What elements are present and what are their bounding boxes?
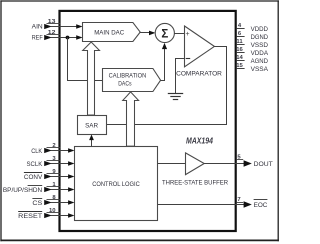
svg-text:VSSD: VSSD xyxy=(251,42,269,49)
figure frame left xyxy=(0,0,2,241)
wire CLK to control logic xyxy=(51,150,73,152)
wire RESET to control logic xyxy=(51,215,73,217)
arrowhead into SAR bottom xyxy=(89,135,94,141)
wire control logic to EOC pin xyxy=(158,204,245,206)
wire control logic to buffer xyxy=(158,163,186,165)
comparator - input mark xyxy=(186,58,191,60)
pin 4 lead stub xyxy=(236,28,244,30)
svg-text:REF: REF xyxy=(32,35,43,42)
main DAC block xyxy=(83,23,141,42)
arrowhead into MAIN DAC (AIN) xyxy=(76,24,82,29)
svg-text:BP/UP/SHDN: BP/UP/SHDN xyxy=(3,187,43,194)
svg-text:CLK: CLK xyxy=(31,148,43,155)
svg-text:DGND: DGND xyxy=(251,34,269,41)
pin 15 lead stub xyxy=(236,68,244,70)
arrowhead into control logic (CLK) xyxy=(68,148,74,153)
wire summer to comparator + xyxy=(174,33,184,35)
svg-text:12: 12 xyxy=(48,30,56,36)
junction dot on REF line xyxy=(66,36,70,40)
three-state buffer triangle xyxy=(186,153,205,175)
wire control logic to SAR xyxy=(91,140,93,147)
wire CS to control logic xyxy=(51,202,73,204)
figure frame top xyxy=(0,0,279,2)
svg-text:MAIN DAC: MAIN DAC xyxy=(94,29,124,36)
pin 11 lead stub xyxy=(236,44,244,46)
svg-text:AGND: AGND xyxy=(251,58,269,65)
pin 6 lead stub xyxy=(236,36,244,38)
svg-text:DACs: DACs xyxy=(118,80,131,87)
summing node circle xyxy=(155,23,174,42)
svg-text:SAR: SAR xyxy=(85,123,98,130)
wire SCLK to control logic xyxy=(51,163,73,165)
arrowhead into control logic (CS) xyxy=(68,200,74,205)
arrowhead into control logic (SCLK) xyxy=(68,161,74,166)
ground symbol bar2 xyxy=(170,96,180,98)
svg-text:SCLK: SCLK xyxy=(27,161,43,168)
svg-text:DOUT: DOUT xyxy=(254,161,273,168)
wire REF into CALIBRATION DACs xyxy=(67,80,103,82)
overline for CONV xyxy=(24,172,42,174)
ground symbol bar3 xyxy=(173,99,178,101)
wire buffer to DOUT pin xyxy=(204,163,244,165)
overline for RESET xyxy=(18,211,42,213)
svg-text:VSSA: VSSA xyxy=(251,66,269,73)
arrowhead into control logic (CONV) xyxy=(68,174,74,179)
calibration DACs block xyxy=(103,69,161,92)
wire MAIN DAC to summer xyxy=(140,32,154,34)
arrowhead into control logic (RESET) xyxy=(68,213,74,218)
wire comparator output to SAR xyxy=(107,47,227,125)
arrowhead into summer bottom xyxy=(162,43,167,49)
pin 5 lead underline xyxy=(236,159,243,161)
pin 16 lead stub xyxy=(236,52,244,54)
figure frame right xyxy=(277,0,279,241)
ground symbol bar1 xyxy=(168,93,183,95)
control logic block xyxy=(75,147,158,221)
svg-text:15: 15 xyxy=(236,63,243,69)
wire CONV to control logic xyxy=(51,176,73,178)
wire AIN to MAIN DAC xyxy=(51,26,81,28)
pin 2 lead underline xyxy=(47,147,61,149)
overline for CS xyxy=(32,198,42,200)
wire REF to MAIN DAC xyxy=(51,37,81,39)
pin 3 lead underline xyxy=(47,160,61,162)
svg-text:MAX194: MAX194 xyxy=(186,136,214,145)
input arrow BP/UP/SHDN xyxy=(44,187,52,192)
output arrow DOUT xyxy=(244,160,252,166)
wire down to ground xyxy=(175,59,177,94)
input arrow RESET xyxy=(44,213,52,218)
pin 9 lead underline xyxy=(47,173,61,175)
input arrow REF xyxy=(44,35,52,40)
input arrow CLK xyxy=(44,148,52,153)
wire REF down to CALIBRATION DACs xyxy=(67,38,69,82)
svg-text:14: 14 xyxy=(236,55,243,61)
output arrow EOC xyxy=(244,201,252,207)
svg-text:+: + xyxy=(185,31,189,38)
svg-text:AIN: AIN xyxy=(32,24,43,31)
input arrow SCLK xyxy=(44,161,52,166)
svg-text:COMPARATOR: COMPARATOR xyxy=(176,71,222,78)
svg-text:CONTROL LOGIC: CONTROL LOGIC xyxy=(92,181,140,188)
wire BP/UP/SHDN to control logic xyxy=(51,189,73,191)
overline for EOC xyxy=(254,199,268,201)
pin 12 lead underline xyxy=(47,34,61,36)
svg-text:CS: CS xyxy=(32,200,42,207)
overline for SHDN xyxy=(28,185,43,187)
svg-text:RESET: RESET xyxy=(18,213,42,220)
input arrow CONV xyxy=(44,174,52,179)
arrowhead into control logic (BP/UP/SHDN) xyxy=(68,187,74,192)
svg-text:VDDD: VDDD xyxy=(251,26,269,33)
svg-text:EOC: EOC xyxy=(254,202,268,209)
bus arrow SAR to MAIN DAC xyxy=(83,42,100,115)
pin 8 lead underline xyxy=(47,199,61,201)
wire ground to comparator - xyxy=(175,58,185,60)
wire calibration DACs to summer xyxy=(161,44,165,81)
svg-text:Σ: Σ xyxy=(161,28,168,40)
pin 1 lead underline xyxy=(47,186,61,188)
SAR block xyxy=(78,116,107,135)
svg-text:THREE-STATE BUFFER: THREE-STATE BUFFER xyxy=(162,180,228,187)
pin 13 lead underline xyxy=(47,23,61,25)
input arrow CS xyxy=(44,200,52,205)
pin 10 lead underline xyxy=(47,212,61,214)
svg-text:CONV: CONV xyxy=(24,174,43,181)
arrowhead into summer xyxy=(149,31,155,36)
svg-text:VDDA: VDDA xyxy=(251,50,269,57)
input arrow AIN xyxy=(44,24,52,29)
bus arrow control logic to calibration DACs xyxy=(123,92,139,146)
svg-text:10: 10 xyxy=(49,208,56,214)
comparator triangle xyxy=(185,26,215,67)
svg-text:11: 11 xyxy=(236,39,243,45)
svg-text:CALIBRATION: CALIBRATION xyxy=(109,73,147,80)
figure frame bottom xyxy=(0,239,279,241)
svg-text:16: 16 xyxy=(236,47,243,53)
arrowhead into MAIN DAC (REF) xyxy=(76,35,82,40)
IC body MAX194 outline xyxy=(60,11,236,231)
pin 7 lead underline xyxy=(236,202,243,204)
pin 14 lead stub xyxy=(236,60,244,62)
svg-text:13: 13 xyxy=(48,19,56,25)
